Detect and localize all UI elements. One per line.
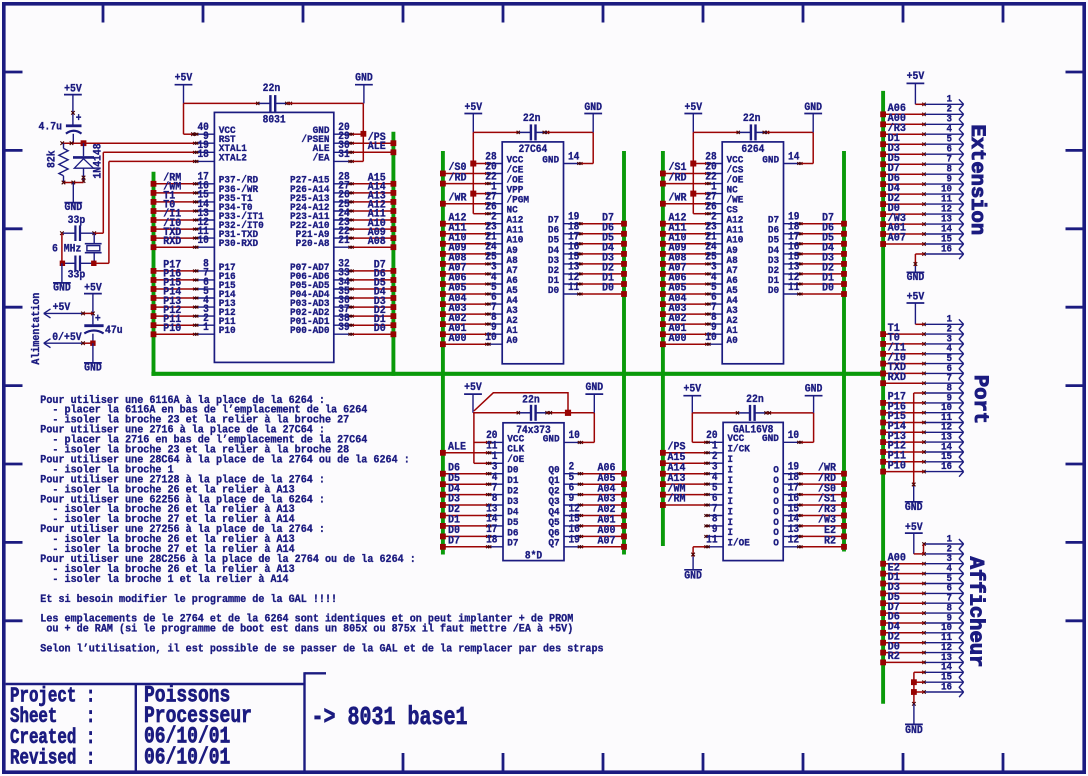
pin 12 (O) right of U5 GAL16V8 (773, 535, 802, 549)
pin 5 (P14) left of U1 8031 (193, 286, 236, 300)
pin 12 (D1) right of U3 6264 (768, 272, 803, 286)
pin 7 (D2) left of U4 74x373 (486, 483, 518, 497)
pin 10 (GND) right of U4 74x373 (543, 431, 583, 445)
junction A01 on bus (440, 331, 446, 337)
power symbol +5V (GAL16V8) (683, 383, 701, 413)
junction D7 on bus (391, 268, 397, 274)
bus wire connectors (881, 91, 885, 704)
wire 74x373 A06 (582, 473, 624, 475)
junction A11 on bus (391, 217, 397, 223)
junction D3 on connector bus (880, 151, 886, 157)
junction /I1 on connector bus (880, 351, 886, 357)
resistor R 82k (46, 143, 68, 182)
crystal Q 6 MHz (52, 233, 102, 263)
junction P17 on bus (151, 268, 157, 274)
junction pin1 node 6264 (690, 191, 696, 197)
junction TXD on bus (151, 235, 157, 241)
wire T1 to 8031 (154, 201, 195, 203)
wire 6264 D4 (802, 253, 844, 255)
svg-text:Alimentation: Alimentation (30, 293, 43, 365)
ground GND (alimentation) (84, 343, 102, 375)
wire 6264 D1 (802, 283, 844, 285)
junction A12 on bus (660, 221, 666, 227)
wire /WR to 27C64 (443, 203, 486, 205)
wire D5 to J1 Extension pin 7 (883, 163, 924, 165)
svg-text:GND: GND (762, 154, 779, 166)
pin 6 (Q2) right of U4 74x373 (548, 483, 583, 497)
pin 33 (P06-AD6) right of U1 8031 (290, 268, 354, 282)
wire D7 to J3 Afficheur pin 8 (883, 612, 924, 614)
wire D7 to 74x373 (443, 546, 487, 548)
junction P11 on bus (151, 322, 157, 328)
junction A02 on bus (440, 321, 446, 327)
wire A15 to GAL16V8 (663, 462, 705, 464)
junction P17 on connector bus (880, 400, 886, 406)
ground GND (8031) (355, 72, 373, 103)
svg-text:P10: P10 (888, 460, 906, 473)
svg-text:21: 21 (338, 236, 349, 248)
pin 8 (D3) left of U4 74x373 (486, 493, 518, 507)
wire ground rail of crystal (61, 233, 63, 263)
bus wire left of 8031 (152, 172, 156, 376)
junction A05 on bus (621, 481, 627, 487)
wire A07 to 27C64 (443, 273, 486, 275)
wire RXD to J2 Port pin 7 (883, 382, 924, 384)
wire 8031 /PS (353, 142, 394, 144)
pin 11 (CLK) left of U4 74x373 (486, 441, 524, 455)
wire P14 to 8031 (154, 297, 195, 299)
ground GND (74x373) (585, 382, 603, 413)
pin 15 (O) right of U5 GAL16V8 (773, 504, 802, 518)
title block frame (6, 672, 326, 772)
power symbol +5V (27C64) (464, 102, 482, 133)
wire Afficheur pins 14-16 to ground (912, 672, 924, 705)
wire T1 to J2 Port pin 2 (883, 333, 924, 335)
svg-text:A0: A0 (506, 335, 517, 347)
pin 40 (VCC) left of U1 8031 (193, 123, 236, 137)
svg-text:GND: GND (53, 282, 71, 295)
junction A13 on bus (391, 199, 397, 205)
junction /WR on bus (841, 471, 847, 477)
pin 11 (P31-TXD) left of U1 8031 (193, 226, 258, 240)
junction R2 on connector bus (880, 660, 886, 666)
svg-text:0/+5V: 0/+5V (52, 331, 82, 344)
wire GAL16V8 R2 (802, 546, 844, 548)
ground GND (Extension) (907, 266, 925, 284)
junction /RM on bus (151, 181, 157, 187)
junction A14 on bus (391, 190, 397, 196)
svg-text:Afficheur: Afficheur (964, 557, 987, 668)
junction A08 on bus (660, 261, 666, 267)
wire A07 to J1 Extension pin 15 (883, 243, 924, 245)
wire cap to GND (27C64) (547, 131, 593, 133)
wire GAL pin 11 I/OE to ground (691, 547, 705, 557)
wire A10 to 6264 (663, 243, 706, 245)
wire 6264 D5 (802, 243, 844, 245)
pin 16 (O) right of U5 GAL16V8 (773, 493, 802, 507)
bus wire left of 6264/GAL (661, 151, 665, 546)
wire P15 to J2 Port pin 11 (883, 422, 924, 424)
wire 74x373 A05 (582, 483, 624, 485)
junction GND/pin20 node (361, 131, 367, 137)
wire 74x373 A07 (582, 546, 624, 548)
wire RXD to 8031 (154, 246, 195, 248)
junction A07 on connector bus (880, 241, 886, 247)
wire GND to 74x373 pin 10 (582, 413, 594, 443)
junction P10 on connector bus (880, 469, 886, 475)
wire Extension pin 16 to ground (914, 254, 924, 266)
pin 3 (A7) left of U2 27C64 (485, 262, 517, 276)
svg-text:+: + (76, 114, 82, 126)
wire GND to pin 14 (6264) (802, 132, 814, 163)
svg-text:D7: D7 (448, 535, 460, 548)
wire D1 to J3 Afficheur pin 5 (883, 583, 924, 585)
wire D0 to J3 Afficheur pin 12 (883, 652, 924, 654)
junction A00 on connector bus (880, 121, 886, 127)
junction A01 on bus (660, 331, 666, 337)
pin 16 (P36-/WR) left of U1 8031 (193, 181, 258, 195)
pin 24 (A9) left of U2 27C64 (485, 242, 517, 256)
svg-text:A00: A00 (449, 332, 467, 345)
junction cap/GND node (74x373) (565, 410, 571, 416)
svg-text:8031: 8031 (263, 115, 286, 127)
wire TXD to 8031 (154, 237, 195, 239)
pin 10 (A0) left of U2 27C64 (485, 333, 517, 347)
pin 16 (D4) right of U2 27C64 (548, 242, 583, 256)
svg-text:A00: A00 (668, 332, 686, 345)
svg-text:Selon l’utilisation, il est po: Selon l’utilisation, il est possible de … (40, 643, 603, 656)
junction ALE on bus (440, 450, 446, 456)
svg-text:/RD: /RD (449, 172, 467, 185)
wire R2 to J3 Afficheur pin 13 (883, 661, 924, 663)
junction A13 on bus (660, 481, 666, 487)
junction A00 on connector bus (880, 561, 886, 567)
wire P14 to J2 Port pin 12 (883, 431, 924, 433)
svg-text:22n: 22n (522, 394, 540, 407)
wire P11 to J2 Port pin 15 (883, 461, 924, 463)
bus wire horizontal rail (151, 372, 885, 376)
wire P16 to J2 Port pin 10 (883, 412, 924, 414)
wire 74x373 A02 (582, 515, 624, 517)
wire E2 to J3 Afficheur pin 4 (883, 573, 924, 575)
wire /RM to GAL16V8 (663, 504, 705, 506)
wire GND to GAL pin 10 (802, 413, 814, 442)
wire +5V to GAL VCC pin 20 (692, 413, 705, 442)
junction A05 on bus (660, 291, 666, 297)
svg-text:+5V: +5V (175, 72, 193, 85)
pin 4 (I) left of U5 GAL16V8 (704, 472, 733, 486)
wire 27C64 D4 (582, 253, 624, 255)
capacitor C 22n (GAL16V8) (692, 393, 813, 420)
wire /WM to 8031 (154, 192, 195, 194)
junction D0 on connector bus (880, 650, 886, 656)
bus wire data 27C64/74x373 (622, 151, 626, 555)
svg-text:10: 10 (197, 236, 208, 248)
junction Afficheur pin 15 gnd (911, 679, 917, 685)
power symbol +5V (reset circuit) (64, 83, 82, 125)
junction D5 on connector bus (880, 161, 886, 167)
ground GND (6264) (804, 102, 822, 133)
pin 24 (P23-A11) right of U1 8031 (290, 208, 354, 222)
wire 8031 D2 (353, 315, 394, 317)
power symbol +5V (8031) (175, 72, 193, 103)
connector J2 Port (922, 313, 963, 476)
pin 6 (A4) left of U3 6264 (705, 293, 737, 307)
capacitor C 22n (8031) (256, 83, 292, 112)
junction RST node (81, 140, 87, 146)
wire T0 to J2 Port pin 3 (883, 343, 924, 345)
junction D7 on connector bus (880, 610, 886, 616)
junction P12 on connector bus (880, 449, 886, 455)
pin 21 (A10) left of U3 6264 (705, 232, 743, 246)
junction A04 on bus (660, 301, 666, 307)
title block values (144, 684, 252, 772)
pin 22 (P21-A9) right of U1 8031 (296, 226, 354, 240)
wire D2 to 74x373 (443, 515, 487, 517)
pin 16 (D4) right of U3 6264 (768, 242, 803, 256)
wire D0 to J1 Extension pin 12 (883, 213, 924, 215)
pin 14 (GND) right of U3 6264 (762, 152, 802, 166)
junction D3 on bus (841, 261, 847, 267)
wire A09 to 6264 (663, 253, 706, 255)
wire 6264 D3 (802, 263, 844, 265)
junction A05 on bus (440, 291, 446, 297)
power symbol +5V (alimentation) (84, 282, 102, 324)
svg-text:47u: 47u (105, 324, 123, 337)
svg-text:Et si besoin modifier le progr: Et si besoin modifier le programme de la… (40, 593, 337, 606)
wire XTAL1 net to crystal top (60, 231, 103, 235)
pin 4 (P13) left of U1 8031 (193, 295, 236, 309)
wire A00 to J1 Extension pin 3 (883, 123, 924, 125)
arrow +5V supply input (44, 302, 93, 318)
junction A08 on bus (391, 244, 397, 250)
svg-text:10: 10 (485, 333, 496, 345)
wire D2 to J3 Afficheur pin 11 (883, 642, 924, 644)
junction TXD on connector bus (880, 371, 886, 377)
junction A01 on connector bus (880, 231, 886, 237)
pin 3 (P12) left of U1 8031 (193, 304, 236, 318)
pin 12 (D1) right of U2 27C64 (548, 272, 583, 286)
pin 34 (P05-AD5) right of U1 8031 (290, 277, 354, 291)
svg-text:/WR: /WR (668, 192, 687, 205)
junction P16 on bus (151, 277, 157, 283)
pin 7 (P16) left of U1 8031 (193, 268, 236, 282)
svg-text:GND: GND (542, 154, 559, 166)
junction /RD on bus (841, 481, 847, 487)
pin 23 (A11) left of U3 6264 (705, 222, 743, 236)
svg-text:4.7u: 4.7u (38, 121, 62, 134)
svg-text:22n: 22n (523, 113, 541, 126)
pin 11 (D0) right of U3 6264 (768, 282, 803, 296)
svg-text:GND: GND (355, 72, 373, 85)
wire 27C64 D3 (582, 263, 624, 265)
wire cap to GND (6264) (767, 131, 813, 133)
pin 9 (Q3) right of U4 74x373 (548, 493, 583, 507)
pin 5 (I) left of U5 GAL16V8 (704, 483, 733, 497)
svg-text:- isoler la broche 1 et la rel: - isoler la broche 1 et la relier à A14 (40, 574, 289, 587)
junction A10 on bus (660, 241, 666, 247)
pin 1 (VPP) left of U2 27C64 (485, 182, 523, 196)
wire +5V to 8031 VCC pin 40 (184, 103, 195, 136)
junction /W3 on bus (841, 523, 847, 529)
junction A11 on bus (440, 231, 446, 237)
junction P14 on bus (151, 295, 157, 301)
wire XTAL2 net to crystal bottom (96, 262, 109, 264)
ic U1 8031 body (214, 112, 333, 362)
pin 26 (CS) left of U3 6264 (705, 202, 737, 216)
junction P13 on bus (151, 304, 157, 310)
svg-text:D0: D0 (822, 282, 834, 295)
wire /PS to GAL16V8 (663, 452, 705, 454)
junction D2 on bus (621, 271, 627, 277)
junction A09 on bus (660, 251, 666, 257)
pin 15 (Q5) right of U4 74x373 (548, 514, 583, 528)
svg-text:GND: GND (585, 382, 603, 395)
junction A03 on bus (621, 502, 627, 508)
svg-text:GND: GND (543, 433, 560, 445)
wire /R3 to J1 Extension pin 4 (883, 133, 924, 135)
pin 3 (A7) left of U3 6264 (705, 262, 737, 276)
pin 23 (P22-A10) right of U1 8031 (290, 217, 354, 231)
junction D0 on bus (841, 291, 847, 297)
wire +5V to VCC/VPP of 27C64 (473, 132, 486, 213)
junction /R3 on connector bus (880, 131, 886, 137)
pin 20 (/CE) left of U2 27C64 (485, 162, 523, 176)
wire D7 to J1 Extension pin 8 (883, 173, 924, 175)
junction P13 on connector bus (880, 439, 886, 445)
pin 19 (D7) right of U2 27C64 (548, 212, 583, 226)
svg-text:6264: 6264 (741, 145, 764, 157)
wire GAL16V8 /W3 (802, 525, 844, 527)
junction E2 on bus (841, 534, 847, 540)
svg-text:1: 1 (203, 323, 209, 335)
wire GND to pin 14 (27C64) (582, 132, 594, 163)
svg-text:Extension: Extension (965, 124, 988, 235)
wire 8031 A11 (353, 219, 394, 221)
svg-text:P00-AD0: P00-AD0 (290, 325, 329, 337)
pin 15 (P35-T1) left of U1 8031 (193, 190, 252, 204)
pin 10 (GND) right of U5 GAL16V8 (762, 431, 803, 445)
svg-text:O: O (773, 537, 779, 549)
ic U3 6264 body (722, 142, 783, 364)
svg-text:39: 39 (338, 323, 349, 335)
svg-text:+5V: +5V (64, 83, 82, 96)
ic U5 GAL16V8 body (723, 422, 783, 560)
junction P12 on bus (151, 313, 157, 319)
pin 13 (D2) right of U2 27C64 (548, 262, 583, 276)
wire A03 to 6264 (663, 313, 706, 315)
wire A01 to 6264 (663, 333, 706, 335)
pin 13 (O) right of U5 GAL16V8 (773, 525, 802, 539)
svg-text:22n: 22n (743, 113, 761, 126)
svg-text:GND: GND (905, 724, 923, 737)
wire 8031 A14 (353, 192, 394, 194)
pin 13 (P33-/IT1) left of U1 8031 (193, 208, 264, 222)
wire 27C64 D5 (582, 243, 624, 245)
ground GND (GAL16V8 cap) (805, 383, 823, 413)
junction D7 on bus (621, 221, 627, 227)
wire 27C64 D0 (582, 293, 624, 295)
pin 2 (Q0) right of U4 74x373 (548, 462, 583, 476)
junction A02 on bus (660, 321, 666, 327)
ground GND (27C64) (584, 102, 602, 133)
pin 9 (A1) left of U3 6264 (705, 323, 737, 337)
wire 6264 D6 (802, 233, 844, 235)
junction /WM on bus (660, 492, 666, 498)
junction A12 on bus (440, 221, 446, 227)
capacitor C 22n (74x373) (473, 394, 594, 421)
wire /RM to 8031 (154, 183, 195, 185)
wire GAL16V8 /S0 (802, 494, 844, 496)
junction D4 on bus (440, 492, 446, 498)
junction D5 on bus (841, 241, 847, 247)
junction D0 on bus (440, 534, 446, 540)
pin 5 (Q1) right of U4 74x373 (548, 473, 583, 487)
wire D0 to 74x373 (443, 535, 487, 537)
svg-text:18: 18 (197, 150, 208, 162)
pin 5 (A5) left of U2 27C64 (485, 282, 517, 296)
wire 8031 D4 (353, 297, 394, 299)
wire /S1 to 6264 (663, 173, 706, 175)
junction A04 on bus (440, 301, 446, 307)
pin 19 (Q7) right of U4 74x373 (548, 535, 583, 549)
junction P14 on connector bus (880, 429, 886, 435)
ground GND (Afficheur) (905, 704, 923, 737)
pin 32 (P07-AD7) right of U1 8031 (290, 259, 354, 273)
pin 12 (P32-/IT0) left of U1 8031 (193, 217, 264, 231)
svg-text:Revised :: Revised : (10, 746, 95, 770)
wire A11 to 27C64 (443, 233, 486, 235)
junction A06 on bus (621, 471, 627, 477)
junction D7 on connector bus (880, 171, 886, 177)
pin 18 (O) right of U5 GAL16V8 (773, 472, 802, 486)
svg-text:+5V: +5V (53, 302, 71, 315)
svg-text:D0: D0 (374, 323, 386, 336)
title block labels (10, 685, 95, 770)
power symbol +5V (Afficheur pins 1-2) (905, 521, 924, 554)
wire T0 to 8031 (154, 210, 195, 212)
junction D2 on connector bus (880, 201, 886, 207)
wire A07 to 6264 (663, 273, 706, 275)
wire 8031 D6 (353, 279, 394, 281)
wire A11 to 6264 (663, 233, 706, 235)
junction A07 on bus (660, 271, 666, 277)
pin 16 (Q6) right of U4 74x373 (548, 525, 583, 539)
junction /I1 on bus (151, 217, 157, 223)
wire 8031 A12 (353, 210, 394, 212)
pin 25 (P24-A12) right of U1 8031 (290, 199, 354, 213)
capacitor C 33p (top) (63, 214, 94, 241)
wire D6 to J1 Extension pin 9 (883, 183, 924, 185)
svg-text:R2: R2 (824, 535, 836, 548)
wire RST to 8031 pin 9 (86, 142, 194, 144)
wire 74x373 A00 (582, 535, 624, 537)
junction D3 on bus (440, 502, 446, 508)
svg-text:GND: GND (905, 501, 923, 514)
svg-text:RXD: RXD (888, 371, 907, 384)
pin 19 (XTAL1) left of U1 8031 (193, 141, 247, 155)
wire /WR to 6264 (663, 203, 706, 205)
wire XTAL1 to 8031 pin 19 (103, 152, 194, 233)
pin 37 (P02-AD2) right of U1 8031 (290, 304, 354, 318)
junction D6 on bus (440, 471, 446, 477)
bus wire data 6264/GAL outputs (842, 151, 846, 552)
svg-text:/WR: /WR (449, 192, 468, 205)
svg-text:06/10/01: 06/10/01 (144, 745, 230, 771)
pin 1 (I/CK) left of U5 GAL16V8 (704, 441, 750, 455)
wire /I1 to 8031 (154, 219, 195, 221)
wire 8031 ALE (353, 151, 394, 153)
